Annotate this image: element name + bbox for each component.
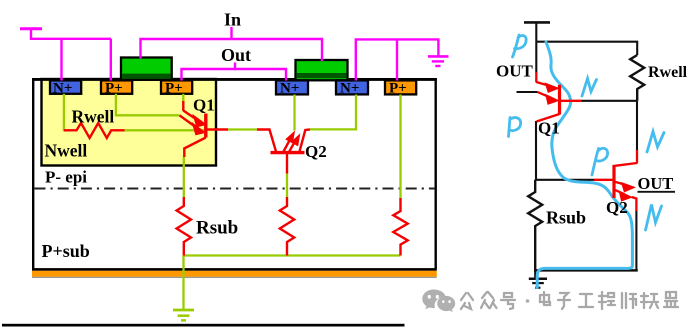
电 [540, 292, 550, 305]
公 [461, 293, 473, 309]
contact P+ (PMOS source) [101, 80, 132, 93]
resistor (third substrate) [393, 198, 407, 256]
wire Q1 collector down [183, 157, 185, 198]
wire Q1 collector down [535, 121, 537, 180]
cyan current path [537, 42, 632, 288]
svg-text:Q1: Q1 [538, 119, 560, 138]
letter N right of Rwell [647, 132, 664, 153]
gate G2 (NMOS poly) [296, 60, 348, 80]
letter P left [509, 118, 521, 137]
wire VDD to N+ tap [60, 39, 62, 81]
watermark text (pseudo CJK strokes) [461, 292, 678, 309]
wire P+ drain down [182, 94, 184, 102]
联 [641, 293, 658, 308]
svg-text:N+: N+ [53, 80, 72, 96]
P+sub bottom black line [32, 268, 437, 271]
contact P+ (substrate tap) [385, 80, 416, 94]
wire base node [581, 100, 637, 102]
svg-text:P+: P+ [389, 81, 407, 97]
letter N lower right [646, 205, 662, 231]
程 [599, 292, 615, 309]
green wires [64, 94, 401, 321]
chip left border [32, 78, 34, 269]
svg-text:P+: P+ [165, 80, 183, 96]
wire VDD down [535, 42, 537, 73]
VSS rail right [356, 39, 449, 80]
resistor Rsub [177, 197, 191, 256]
substrate junction line [184, 254, 401, 256]
chip top surface [32, 78, 437, 81]
师 [622, 293, 636, 308]
svg-text:P+: P+ [105, 80, 123, 96]
cyan letters [509, 35, 665, 230]
工 [579, 294, 593, 307]
letter N at Q1 [582, 79, 597, 97]
svg-text:Rwell: Rwell [648, 64, 688, 81]
contact N+ (NMOS source) [336, 80, 368, 94]
wire P+ substrate tap down [399, 95, 401, 199]
transistor Q1 (parasitic PNP) [180, 101, 229, 157]
ground [173, 309, 194, 312]
wire mid node [535, 179, 594, 181]
OUT lead [517, 91, 538, 93]
svg-text:Q1: Q1 [193, 96, 215, 115]
VSS ground symbol [428, 55, 449, 58]
svg-text:OUT: OUT [638, 174, 674, 193]
chip right border [435, 78, 437, 269]
resistor Rsub [528, 180, 542, 271]
svg-text:Rwell: Rwell [72, 107, 115, 127]
Nwell region [42, 79, 217, 166]
wire P+ source to Q1 emitter [116, 94, 180, 116]
letter P top [513, 35, 527, 57]
letter P at Q2 [592, 148, 608, 175]
wire N+ tap down to Rwell [63, 94, 65, 132]
wire Q2 base down [286, 173, 288, 198]
resistor (second substrate) [280, 197, 294, 256]
In net [141, 27, 323, 61]
watermark wechat icon [422, 290, 455, 313]
wire Rwell to Q1 base [125, 129, 205, 131]
ground [534, 270, 536, 278]
wire Q1 base to Q2 collector [228, 128, 257, 130]
wire N+ drain down to Q2 emitter [293, 95, 295, 131]
transistor Q2 (right, NPN) [594, 150, 637, 211]
VDD rail symbol top-left [20, 29, 111, 81]
transistor Q2 (parasitic NPN) [257, 129, 310, 173]
svg-text:Q2: Q2 [305, 142, 327, 161]
Out net [182, 63, 287, 81]
contact N+ (NMOS drain) [276, 80, 308, 94]
wire N+ source to Q2 [310, 95, 356, 130]
contact P+ (PMOS drain) [161, 80, 192, 93]
svg-text:Out: Out [221, 45, 251, 65]
P+sub orange layer [32, 271, 437, 277]
svg-text:Nwell: Nwell [45, 141, 88, 161]
wire top [536, 42, 637, 55]
contact N+ (Nwell tap) [50, 80, 81, 93]
power rail T [517, 22, 645, 287]
svg-text:Rsub: Rsub [546, 208, 586, 228]
svg-text:P+sub: P+sub [42, 241, 90, 261]
svg-text:Rsub: Rsub [196, 218, 238, 239]
众 [481, 292, 497, 308]
svg-text:Q2: Q2 [606, 198, 628, 217]
wire Q2 emitter down [635, 211, 637, 271]
号 [501, 293, 515, 309]
盟 [664, 292, 678, 307]
svg-text:In: In [224, 10, 241, 30]
svg-text:P- epi: P- epi [45, 168, 87, 187]
resistor Rwell [64, 123, 125, 138]
gate G1 (PMOS poly) [121, 58, 172, 80]
resistor Rwell [630, 55, 644, 101]
svg-text:OUT: OUT [496, 62, 534, 81]
dot [526, 299, 530, 303]
wire node down [636, 101, 638, 151]
transistor Q1 (right, PNP) [536, 72, 581, 122]
bottom bar [2, 324, 405, 327]
子 [558, 293, 570, 309]
svg-text:N+: N+ [340, 81, 359, 97]
svg-text:N+: N+ [280, 81, 299, 97]
wire VDD to P+ source [110, 39, 112, 81]
P-epi / substrate dash-dot boundary [35, 188, 436, 190]
wire to ground [182, 256, 184, 311]
bottom rail [534, 269, 638, 272]
